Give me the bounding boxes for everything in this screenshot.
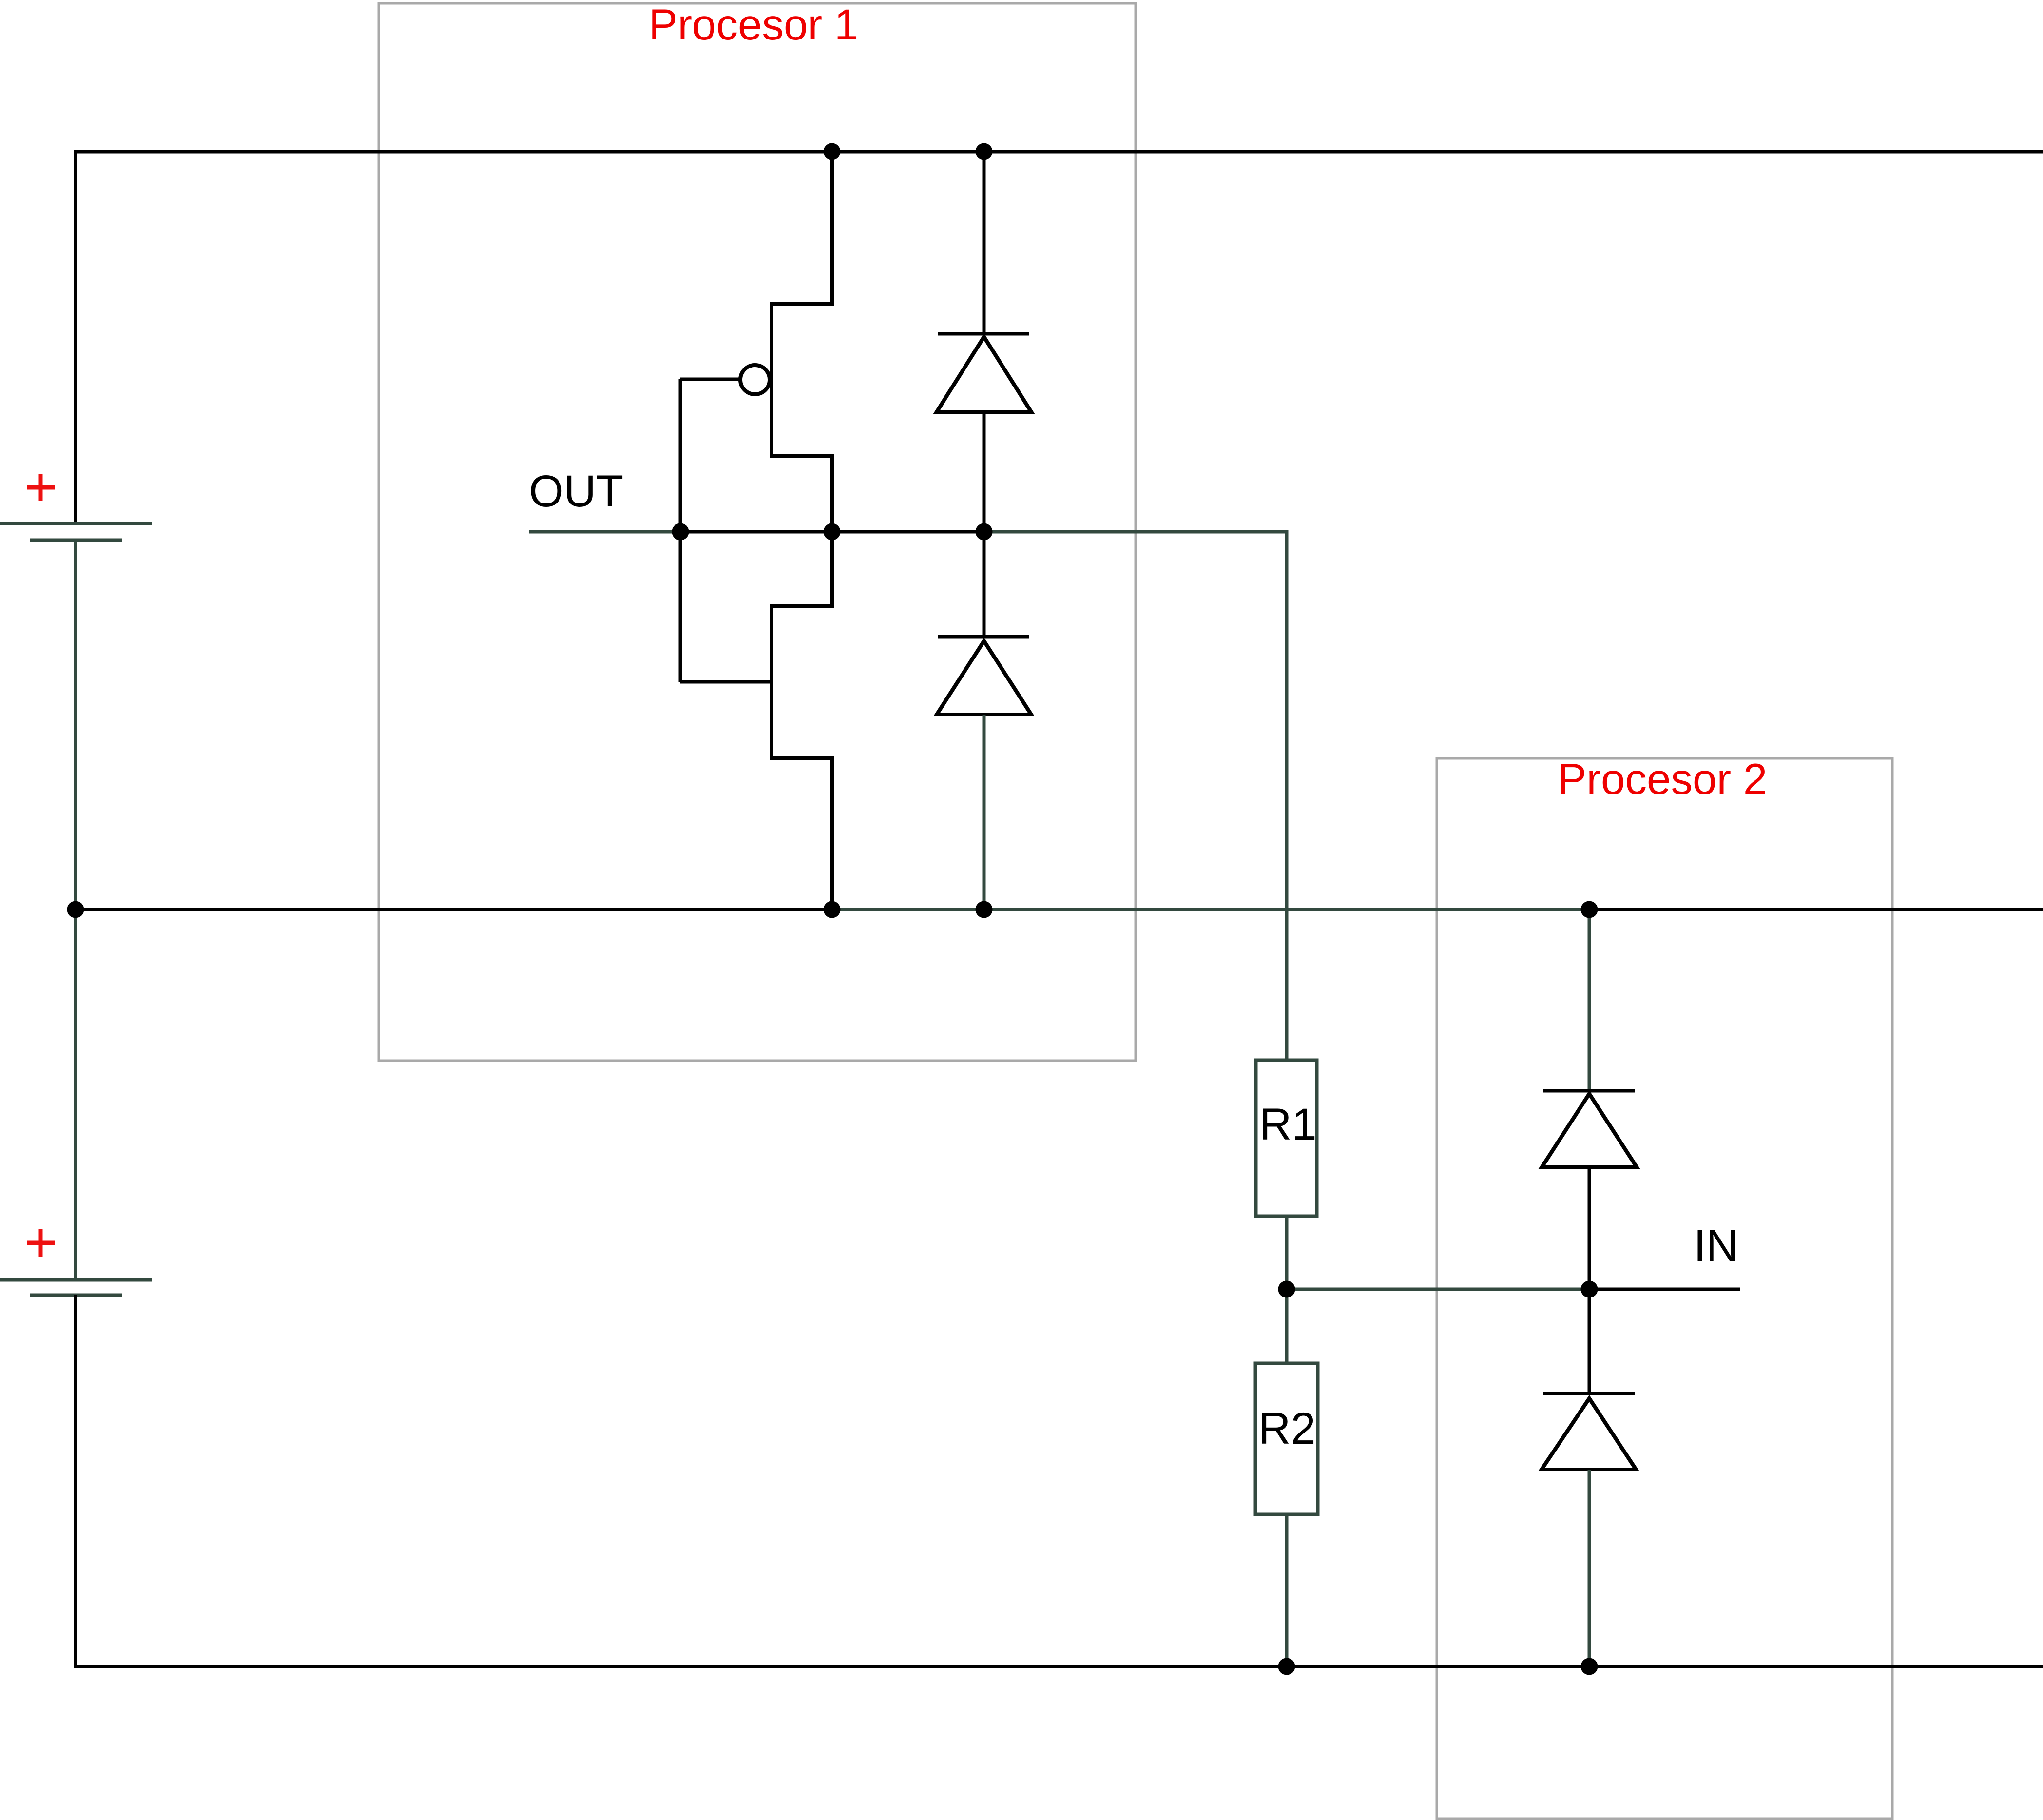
resistor R2 — [1255, 1363, 1318, 1514]
wire top rail (VDD) — [74, 150, 2043, 154]
transistor Q1 (PMOS) — [680, 152, 832, 532]
svg-text:IN: IN — [1694, 1221, 1738, 1271]
transistor Q2 (NMOS) — [680, 532, 832, 910]
wire mid rail right segment — [1589, 908, 2043, 911]
wire mid rail center segment — [832, 908, 1589, 911]
svg-text:Procesor 1: Procesor 1 — [649, 0, 858, 49]
wire bottom rail (ground) — [74, 1665, 2043, 1668]
battery B2 plus label — [27, 1229, 55, 1257]
Procesor 2 box — [1437, 758, 1892, 1819]
node IN-diode junction — [1581, 1281, 1598, 1298]
wire R1 to IN node — [1285, 1216, 1289, 1289]
wire OUT to D2 — [983, 532, 986, 637]
wire gate vertical — [679, 379, 682, 682]
wire OUT gates-to-diode — [680, 530, 984, 534]
svg-text:R1: R1 — [1259, 1100, 1317, 1149]
wire D4 to ground rail — [1588, 1470, 1591, 1666]
node OUT-drain junction — [824, 523, 841, 541]
wire IN stub — [1589, 1288, 1740, 1291]
resistor R1 — [1256, 1060, 1317, 1216]
node ground-R2 junction — [1278, 1658, 1295, 1675]
wire IN node to R2 — [1285, 1289, 1289, 1363]
wire D2 to mid rail — [983, 715, 986, 910]
svg-text:R2: R2 — [1258, 1404, 1316, 1453]
node OUT-diode junction — [976, 523, 993, 541]
node midrail-battery junction — [67, 901, 84, 918]
wire left vertical middle (battery 1 bottom to battery 2 top) — [74, 540, 77, 1280]
wire OUT to divider — [984, 532, 1287, 1060]
node IN-divider junction — [1278, 1281, 1295, 1298]
wire mid rail to D3 — [1588, 910, 1591, 1091]
wire D1 to OUT — [983, 412, 986, 532]
node midrail-Q2 junction — [824, 901, 841, 918]
svg-text:Procesor 2: Procesor 2 — [1558, 755, 1767, 803]
battery B2 — [0, 1280, 152, 1295]
wire VDD to D1 — [983, 152, 986, 334]
node midrail-D3 junction — [1581, 901, 1598, 918]
diode D4 — [1542, 1394, 1636, 1470]
wire OUT stub — [529, 530, 680, 534]
wire left vertical lower (battery 2 bottom to ground rail) — [74, 1295, 77, 1666]
node ground-D4 junction — [1581, 1658, 1598, 1675]
diode D2 — [937, 637, 1031, 715]
wire IN node horizontal — [1287, 1288, 1589, 1291]
wire R2 to ground rail — [1285, 1514, 1289, 1666]
wire mid rail left segment — [74, 908, 832, 911]
node OUT-gate junction — [672, 523, 689, 541]
Procesor 1 box — [379, 3, 1136, 1061]
wire IN to D4 — [1588, 1289, 1591, 1394]
battery B1 — [0, 523, 152, 540]
svg-text:OUT: OUT — [529, 466, 623, 516]
wire D3 to IN — [1588, 1167, 1591, 1289]
node VDD-Q1 junction — [824, 143, 841, 160]
diode D3 — [1542, 1091, 1637, 1167]
wire left vertical upper (battery 1 top) — [74, 150, 77, 522]
node midrail-D2 junction — [976, 901, 993, 918]
diode D1 — [937, 334, 1031, 412]
battery B1 plus label — [27, 474, 55, 501]
node VDD-D1 junction — [976, 143, 993, 160]
